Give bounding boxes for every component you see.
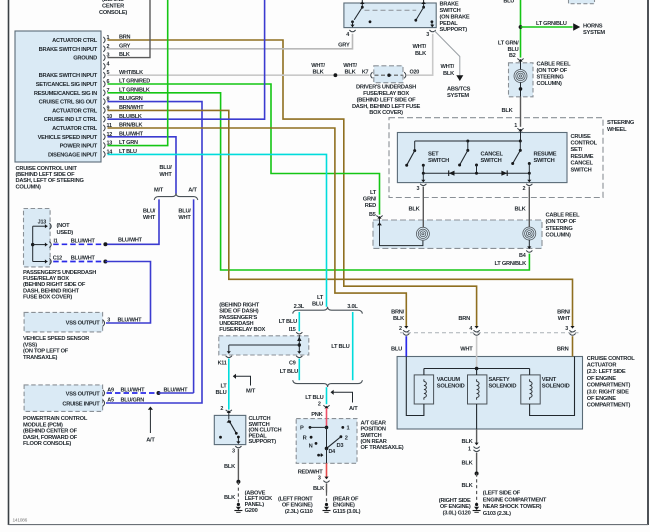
svg-text:SUPPORT): SUPPORT) bbox=[440, 27, 468, 33]
svg-text:CONTROL: CONTROL bbox=[571, 141, 598, 147]
svg-text:BLU: BLU bbox=[312, 302, 323, 308]
svg-text:3: 3 bbox=[232, 448, 235, 454]
svg-text:A/T: A/T bbox=[146, 438, 155, 444]
svg-text:BLU/: BLU/ bbox=[143, 209, 156, 215]
svg-text:OF ENGINE: OF ENGINE bbox=[587, 396, 616, 402]
svg-text:BLK: BLK bbox=[415, 51, 427, 57]
svg-text:COMPARTMENT): COMPARTMENT) bbox=[587, 383, 631, 389]
svg-text:RESUME: RESUME bbox=[571, 154, 594, 160]
svg-text:GRY: GRY bbox=[338, 42, 350, 48]
svg-text:VSS OUTPUT: VSS OUTPUT bbox=[66, 391, 101, 397]
svg-text:BLU/WHT: BLU/WHT bbox=[71, 238, 96, 244]
svg-text:K7: K7 bbox=[362, 70, 369, 76]
svg-text:BLK: BLK bbox=[462, 460, 474, 466]
svg-text:SAFETY: SAFETY bbox=[489, 377, 510, 383]
svg-text:ENGINE): ENGINE) bbox=[333, 503, 355, 509]
svg-text:LT: LT bbox=[317, 295, 324, 301]
svg-text:2: 2 bbox=[220, 406, 223, 412]
svg-text:B5: B5 bbox=[369, 212, 376, 218]
svg-text:UNDERDASH: UNDERDASH bbox=[219, 321, 253, 327]
svg-text:CRUISE IND LT CTRL: CRUISE IND LT CTRL bbox=[44, 117, 98, 123]
svg-text:1: 1 bbox=[514, 123, 517, 129]
svg-text:P: P bbox=[300, 426, 304, 432]
svg-text:SWITCH: SWITCH bbox=[440, 8, 461, 14]
svg-text:LT BLU: LT BLU bbox=[331, 344, 349, 350]
svg-text:BLK: BLK bbox=[224, 495, 236, 501]
svg-text:LT: LT bbox=[370, 190, 377, 196]
svg-text:VACUUM: VACUUM bbox=[437, 377, 461, 383]
svg-text:PNK: PNK bbox=[311, 412, 323, 418]
svg-text:A/T: A/T bbox=[188, 187, 197, 193]
svg-text:CRUISE CTRL SIG OUT: CRUISE CTRL SIG OUT bbox=[39, 100, 98, 106]
svg-text:(ON TOP OF: (ON TOP OF bbox=[537, 68, 568, 74]
svg-text:(LEFT FRONT: (LEFT FRONT bbox=[278, 496, 313, 502]
svg-text:COLUMN): COLUMN) bbox=[16, 184, 41, 190]
svg-text:C9: C9 bbox=[289, 361, 296, 367]
svg-text:GROUND: GROUND bbox=[73, 56, 97, 62]
svg-text:SYSTEM: SYSTEM bbox=[447, 93, 469, 99]
svg-text:D3: D3 bbox=[337, 443, 344, 449]
svg-text:FUSE/RELAY BOX: FUSE/RELAY BOX bbox=[363, 91, 409, 97]
svg-text:2.3L: 2.3L bbox=[294, 304, 305, 310]
svg-text:G200: G200 bbox=[245, 508, 258, 514]
svg-text:3: 3 bbox=[426, 32, 429, 38]
svg-text:CONSOLE): CONSOLE) bbox=[99, 10, 127, 16]
svg-text:BRN/: BRN/ bbox=[391, 310, 405, 316]
svg-text:2: 2 bbox=[399, 326, 402, 332]
svg-text:USED): USED) bbox=[57, 230, 74, 236]
svg-text:(2.3L) G110: (2.3L) G110 bbox=[285, 509, 313, 515]
svg-text:(BEHIND LEFT SIDE OF: (BEHIND LEFT SIDE OF bbox=[357, 97, 417, 103]
svg-text:ACTUATOR: ACTUATOR bbox=[587, 363, 617, 369]
svg-text:OF ENGINE: OF ENGINE bbox=[587, 376, 616, 382]
svg-text:FLOOR CONSOLE): FLOOR CONSOLE) bbox=[23, 441, 71, 447]
svg-text:(3.0L) G120: (3.0L) G120 bbox=[443, 511, 471, 517]
svg-text:(3.0: RIGHT SIDE: (3.0: RIGHT SIDE bbox=[587, 389, 629, 395]
svg-text:(ON BRAKE: (ON BRAKE bbox=[440, 14, 470, 20]
svg-text:2: 2 bbox=[523, 186, 526, 192]
svg-text:CRUISE INPUT: CRUISE INPUT bbox=[62, 402, 100, 408]
svg-text:M/T: M/T bbox=[154, 187, 164, 193]
svg-text:DASH, BEHIND RIGHT: DASH, BEHIND RIGHT bbox=[23, 288, 80, 294]
svg-text:DISENGAGE INPUT: DISENGAGE INPUT bbox=[48, 152, 98, 158]
svg-text:POWER INPUT: POWER INPUT bbox=[60, 144, 98, 150]
svg-text:WHEEL: WHEEL bbox=[607, 127, 627, 133]
svg-text:WHT/: WHT/ bbox=[311, 63, 325, 69]
svg-text:BLK: BLK bbox=[502, 108, 514, 114]
svg-text:COLUMN): COLUMN) bbox=[537, 81, 562, 87]
svg-text:(BEHIND RIGHT: (BEHIND RIGHT bbox=[219, 303, 259, 309]
svg-text:J13: J13 bbox=[38, 220, 47, 226]
svg-text:BLK: BLK bbox=[462, 483, 474, 489]
svg-text:ACTUATOR CTRL: ACTUATOR CTRL bbox=[52, 38, 98, 44]
svg-text:BLU/WHT: BLU/WHT bbox=[118, 318, 143, 324]
svg-text:FUSE/RELAY BOX: FUSE/RELAY BOX bbox=[219, 327, 265, 333]
svg-text:4: 4 bbox=[469, 326, 472, 332]
svg-text:LT GRN/: LT GRN/ bbox=[498, 40, 519, 46]
svg-text:3: 3 bbox=[417, 186, 420, 192]
svg-text:2: 2 bbox=[345, 435, 348, 441]
svg-text:DASH, FORWARD OF: DASH, FORWARD OF bbox=[23, 435, 78, 441]
svg-text:A5: A5 bbox=[107, 398, 114, 404]
svg-text:2: 2 bbox=[318, 401, 321, 407]
svg-text:HORNS: HORNS bbox=[583, 23, 603, 29]
svg-text:PASSENGER'S: PASSENGER'S bbox=[219, 315, 257, 321]
svg-text:3.0L: 3.0L bbox=[347, 304, 358, 310]
svg-text:(RIGHT SIDE: (RIGHT SIDE bbox=[439, 498, 471, 504]
svg-text:BRN/: BRN/ bbox=[557, 310, 571, 316]
svg-text:CANCEL: CANCEL bbox=[571, 161, 594, 167]
svg-text:ACTUATOR CTRL: ACTUATOR CTRL bbox=[52, 108, 98, 114]
svg-text:STEERING: STEERING bbox=[607, 120, 635, 126]
svg-text:OF ENGINE): OF ENGINE) bbox=[282, 503, 313, 509]
svg-text:A/T: A/T bbox=[349, 406, 358, 412]
svg-text:A/T GEAR: A/T GEAR bbox=[361, 420, 386, 426]
svg-text:M/T: M/T bbox=[246, 389, 256, 395]
svg-text:1: 1 bbox=[468, 446, 471, 452]
svg-text:CABLE REEL: CABLE REEL bbox=[537, 61, 572, 67]
svg-text:LT GRN/BLU: LT GRN/BLU bbox=[536, 21, 567, 27]
svg-text:WHT/: WHT/ bbox=[343, 63, 357, 69]
svg-text:SOLENOID: SOLENOID bbox=[437, 383, 465, 389]
svg-text:WHT: WHT bbox=[558, 316, 571, 322]
svg-text:CANCEL: CANCEL bbox=[481, 151, 504, 157]
svg-text:WHT: WHT bbox=[143, 215, 156, 221]
svg-text:SYSTEM: SYSTEM bbox=[583, 30, 605, 36]
svg-text:STEERING: STEERING bbox=[537, 75, 565, 81]
svg-text:FUSE/RELAY BOX: FUSE/RELAY BOX bbox=[23, 276, 69, 282]
svg-text:RESUME: RESUME bbox=[534, 151, 557, 157]
svg-text:BRN: BRN bbox=[557, 347, 569, 353]
svg-text:B2: B2 bbox=[509, 53, 516, 59]
svg-text:COMPARTMENT): COMPARTMENT) bbox=[587, 403, 631, 409]
svg-text:FUSE BOX COVER): FUSE BOX COVER) bbox=[23, 295, 72, 301]
svg-text:BRN: BRN bbox=[458, 316, 470, 322]
svg-text:RED: RED bbox=[365, 203, 376, 209]
svg-text:BRAKE: BRAKE bbox=[440, 2, 459, 8]
svg-text:LT GRN/BLK: LT GRN/BLK bbox=[494, 261, 527, 267]
svg-text:4: 4 bbox=[107, 61, 110, 67]
svg-text:(BEHIND RIGHT SIDE OF: (BEHIND RIGHT SIDE OF bbox=[23, 282, 86, 288]
svg-text:3: 3 bbox=[565, 326, 568, 332]
svg-text:CRUISE: CRUISE bbox=[571, 134, 591, 140]
svg-text:BLU/: BLU/ bbox=[178, 209, 191, 215]
svg-text:SWITCH: SWITCH bbox=[571, 167, 592, 173]
svg-text:(LEFT SIDE OF: (LEFT SIDE OF bbox=[483, 491, 521, 497]
svg-text:WHT: WHT bbox=[159, 172, 172, 178]
svg-text:DRIVER'S UNDERDASH: DRIVER'S UNDERDASH bbox=[356, 85, 416, 91]
svg-text:(ON TOP LEFT OF: (ON TOP LEFT OF bbox=[23, 349, 69, 355]
svg-text:OF ENGINE): OF ENGINE) bbox=[440, 504, 471, 510]
svg-text:(REAR OF: (REAR OF bbox=[333, 496, 359, 502]
svg-text:WHT: WHT bbox=[178, 215, 191, 221]
svg-text:BLK: BLK bbox=[224, 464, 236, 470]
svg-text:WHT/: WHT/ bbox=[440, 64, 454, 70]
svg-text:BLU/: BLU/ bbox=[159, 165, 172, 171]
svg-text:BLU/GRN: BLU/GRN bbox=[121, 398, 145, 404]
svg-text:VSS OUTPUT: VSS OUTPUT bbox=[66, 321, 101, 327]
svg-text:(NOT: (NOT bbox=[57, 223, 71, 229]
svg-text:I1: I1 bbox=[54, 238, 58, 244]
svg-text:3: 3 bbox=[318, 475, 321, 481]
svg-text:COLUMN): COLUMN) bbox=[546, 232, 571, 238]
svg-text:ENGINE COMPARTMENT: ENGINE COMPARTMENT bbox=[483, 497, 547, 503]
svg-text:BLK: BLK bbox=[409, 206, 421, 212]
svg-text:NEAR SHOCK TOWER): NEAR SHOCK TOWER) bbox=[483, 504, 542, 510]
svg-text:G115 (3.0L): G115 (3.0L) bbox=[333, 509, 361, 515]
svg-text:(ON TOP OF: (ON TOP OF bbox=[546, 219, 577, 225]
svg-text:1: 1 bbox=[347, 426, 350, 432]
svg-text:BRAKE SWITCH INPUT: BRAKE SWITCH INPUT bbox=[39, 47, 98, 53]
svg-text:SWITCH: SWITCH bbox=[481, 158, 502, 164]
svg-text:VEHICLE SPEED SENSOR: VEHICLE SPEED SENSOR bbox=[23, 336, 89, 342]
svg-text:O20: O20 bbox=[410, 70, 420, 76]
svg-text:BLK: BLK bbox=[313, 486, 325, 492]
svg-text:MODULE (PCM): MODULE (PCM) bbox=[23, 422, 63, 428]
svg-text:RESUME/CANCEL SIG IN: RESUME/CANCEL SIG IN bbox=[34, 91, 97, 97]
svg-text:BLU/WHT: BLU/WHT bbox=[71, 256, 96, 262]
svg-text:CABLE REEL: CABLE REEL bbox=[546, 213, 581, 219]
svg-text:SET/: SET/ bbox=[571, 147, 583, 153]
svg-text:LT BLU: LT BLU bbox=[305, 395, 323, 401]
svg-text:LT BLU: LT BLU bbox=[279, 319, 297, 325]
svg-text:PASSENGER'S UNDERDASH: PASSENGER'S UNDERDASH bbox=[23, 270, 96, 276]
svg-text:(BEHIND LEFT SIDE OF: (BEHIND LEFT SIDE OF bbox=[16, 172, 76, 178]
svg-text:4: 4 bbox=[346, 32, 349, 38]
svg-text:WHT: WHT bbox=[460, 347, 473, 353]
svg-text:3: 3 bbox=[107, 318, 110, 324]
svg-text:CENTER: CENTER bbox=[102, 4, 124, 10]
svg-text:G103 (2.3L): G103 (2.3L) bbox=[483, 511, 511, 517]
svg-text:SOLENOID: SOLENOID bbox=[489, 383, 517, 389]
svg-text:OF TRANSAXLE): OF TRANSAXLE) bbox=[361, 445, 404, 451]
svg-text:POSITION: POSITION bbox=[361, 427, 386, 433]
svg-text:GRN/: GRN/ bbox=[363, 197, 377, 203]
svg-text:(VSS): (VSS) bbox=[23, 342, 37, 348]
svg-text:BLK: BLK bbox=[345, 70, 357, 76]
svg-text:VEHICLE SPEED INPUT: VEHICLE SPEED INPUT bbox=[38, 135, 98, 141]
svg-text:CRUISE CONTROL: CRUISE CONTROL bbox=[587, 356, 635, 362]
svg-text:BLK: BLK bbox=[462, 439, 474, 445]
svg-text:SOLENOID: SOLENOID bbox=[542, 383, 570, 389]
svg-text:STEERING: STEERING bbox=[546, 226, 574, 232]
svg-text:(BEHIND CENTER OF: (BEHIND CENTER OF bbox=[23, 429, 78, 435]
svg-text:POWERTRAIN CONTROL: POWERTRAIN CONTROL bbox=[23, 416, 88, 422]
svg-text:LT BLU: LT BLU bbox=[280, 369, 298, 375]
svg-text:BLU/WHT: BLU/WHT bbox=[118, 238, 143, 244]
svg-text:BLU: BLU bbox=[391, 347, 402, 353]
svg-text:(2.3: LEFT SIDE: (2.3: LEFT SIDE bbox=[587, 369, 626, 375]
svg-text:LT: LT bbox=[220, 383, 227, 389]
svg-text:ACTUATOR CTRL: ACTUATOR CTRL bbox=[52, 126, 98, 132]
svg-text:VENT: VENT bbox=[542, 377, 557, 383]
svg-text:BLU: BLU bbox=[503, 0, 514, 4]
svg-text:SWITCH: SWITCH bbox=[361, 433, 382, 439]
svg-text:D4: D4 bbox=[329, 449, 336, 455]
svg-text:I15: I15 bbox=[289, 327, 296, 333]
svg-text:DASH, BEHIND LEFT FUSE: DASH, BEHIND LEFT FUSE bbox=[352, 104, 421, 110]
svg-text:TRANSAXLE): TRANSAXLE) bbox=[23, 355, 58, 361]
svg-text:ABS/TCS: ABS/TCS bbox=[447, 87, 471, 93]
svg-text:BLK: BLK bbox=[515, 206, 527, 212]
svg-text:BLK: BLK bbox=[393, 316, 405, 322]
svg-text:K11: K11 bbox=[218, 361, 227, 367]
svg-text:BLK: BLK bbox=[443, 71, 455, 77]
svg-text:BLU: BLU bbox=[216, 390, 227, 396]
svg-text:SIDE OF DASH): SIDE OF DASH) bbox=[219, 309, 258, 315]
svg-text:PEDAL: PEDAL bbox=[440, 21, 459, 27]
svg-text:N: N bbox=[309, 444, 313, 450]
svg-text:(ON REAR: (ON REAR bbox=[361, 439, 387, 445]
svg-text:R: R bbox=[303, 436, 307, 442]
svg-text:WHT/: WHT/ bbox=[412, 44, 426, 50]
svg-text:BRAKE SWITCH INPUT: BRAKE SWITCH INPUT bbox=[39, 73, 98, 79]
svg-text:B4: B4 bbox=[519, 253, 526, 259]
svg-text:BOX COVER): BOX COVER) bbox=[369, 110, 403, 116]
svg-text:141086: 141086 bbox=[13, 518, 28, 524]
svg-text:SET/CANCEL SIG INPUT: SET/CANCEL SIG INPUT bbox=[36, 82, 98, 88]
svg-text:SWITCH: SWITCH bbox=[428, 158, 449, 164]
svg-text:SWITCH: SWITCH bbox=[534, 158, 555, 164]
svg-text:DASH, LEFT OF STEERING: DASH, LEFT OF STEERING bbox=[16, 178, 85, 184]
svg-text:SUPPORT): SUPPORT) bbox=[249, 439, 277, 445]
svg-text:CRUISE CONTROL UNIT: CRUISE CONTROL UNIT bbox=[16, 166, 78, 172]
svg-text:SET: SET bbox=[428, 151, 439, 157]
svg-text:BLK: BLK bbox=[313, 70, 325, 76]
